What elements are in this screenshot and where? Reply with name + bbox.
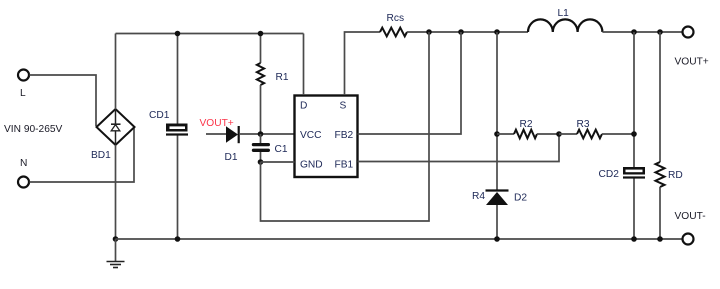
- terminal L: [18, 70, 29, 81]
- label CD2: [599, 169, 620, 180]
- svg-text:C1: C1: [275, 144, 288, 155]
- label BD1: [91, 150, 111, 161]
- wire N to BD1 right vertex: [30, 128, 135, 182]
- junction dot D2 bottom: [494, 236, 500, 242]
- svg-text:VCC: VCC: [300, 130, 322, 141]
- resistor R3: [559, 130, 634, 139]
- label Rcs: [387, 13, 405, 24]
- svg-text:FB1: FB1: [335, 160, 354, 171]
- junction dot CD2 bottom: [631, 236, 637, 242]
- junction dot CD1 top: [175, 31, 181, 37]
- label D2: [514, 193, 527, 204]
- terminal VOUT-: [683, 234, 694, 245]
- wire FB2 to rail: [358, 32, 462, 134]
- op-amp U1 IC box: [295, 96, 358, 178]
- junction dot R3 right: [631, 131, 637, 137]
- label L1: [558, 8, 570, 19]
- capacitor C1: [252, 134, 270, 162]
- svg-text:VOUT+: VOUT+: [675, 57, 709, 68]
- bridge rectifier BD1: [97, 109, 135, 145]
- resistor R2: [497, 130, 559, 139]
- label RD: [668, 170, 683, 181]
- label N: [20, 158, 27, 169]
- resistor RD: [656, 32, 665, 239]
- pin GND: [300, 160, 323, 171]
- wire bottom rail: [116, 238, 683, 240]
- junction dot RD bottom: [657, 236, 663, 242]
- junction dot VCC node: [258, 131, 264, 137]
- capacitor CD1: [166, 124, 188, 136]
- svg-text:CD1: CD1: [149, 110, 170, 121]
- label VOUT-: [675, 211, 706, 222]
- resistor Rcs: [380, 28, 407, 37]
- pin D: [300, 101, 307, 112]
- terminal N: [18, 177, 29, 188]
- svg-text:D1: D1: [225, 152, 238, 163]
- wire BD1 top vertex to top-left rail: [115, 34, 117, 110]
- svg-text:VOUT-: VOUT-: [675, 211, 706, 222]
- junction dot CD1 bottom: [175, 236, 181, 242]
- wire GND pin to C1: [261, 161, 295, 163]
- label CD1: [149, 110, 170, 121]
- inductor L1: [528, 19, 602, 32]
- svg-text:R3: R3: [577, 119, 590, 130]
- label C1: [275, 144, 288, 155]
- wire CD2 branch: [633, 32, 635, 239]
- wire L1 to VOUT+ terminal: [602, 31, 682, 33]
- svg-text:R4: R4: [472, 191, 485, 202]
- diode D2: [486, 191, 509, 240]
- label R2: [520, 119, 533, 130]
- label R4: [472, 191, 485, 202]
- junction dot RD rail: [657, 29, 663, 35]
- pin VCC: [300, 130, 322, 141]
- svg-text:L1: L1: [558, 8, 570, 19]
- label D1: [225, 152, 238, 163]
- ground: [107, 239, 125, 268]
- svg-text:D2: D2: [514, 193, 527, 204]
- label L: [20, 88, 26, 99]
- wire GND loop: [261, 32, 430, 221]
- wire L to BD1 left vertex: [30, 75, 97, 126]
- junction dot GND-loop rail: [426, 29, 432, 35]
- svg-text:R2: R2: [520, 119, 533, 130]
- svg-text:GND: GND: [300, 160, 323, 171]
- svg-text:D: D: [300, 101, 307, 112]
- label R1: [276, 72, 289, 83]
- wire S pin to rail: [345, 32, 381, 95]
- svg-text:VOUT+: VOUT+: [200, 118, 234, 129]
- label VOUT+ red: [200, 118, 234, 129]
- junction dot bottom-left: [113, 236, 119, 242]
- pin FB1: [335, 160, 354, 171]
- junction dot D2 rail: [494, 29, 500, 35]
- junction dot R2 R3: [556, 131, 562, 137]
- pin FB2: [335, 130, 354, 141]
- diode D1: [206, 126, 294, 143]
- label VIN 90-265V: [4, 124, 63, 135]
- junction dot R2 left: [494, 131, 500, 137]
- junction dot R1 top: [258, 31, 264, 37]
- wire BD1 bottom vertex down: [115, 145, 117, 239]
- svg-text:Rcs: Rcs: [387, 13, 405, 24]
- wire top-right rail to L1: [407, 31, 528, 33]
- svg-text:FB2: FB2: [335, 130, 354, 141]
- terminal VOUT+: [683, 27, 694, 38]
- svg-text:S: S: [340, 101, 347, 112]
- junction dot C1 bottom: [258, 159, 264, 165]
- svg-text:CD2: CD2: [599, 169, 620, 180]
- wire FB1 to R2 R3 junction: [358, 134, 560, 162]
- junction dot FB2 rail: [458, 29, 464, 35]
- svg-text:RD: RD: [668, 170, 683, 181]
- resistor R1: [257, 34, 264, 135]
- svg-text:N: N: [20, 158, 27, 169]
- svg-text:VIN 90-265V: VIN 90-265V: [4, 124, 63, 135]
- wire D pin to rail: [303, 34, 305, 96]
- label VOUT+: [675, 57, 709, 68]
- svg-text:R1: R1: [276, 72, 289, 83]
- junction dot CD2 rail: [631, 29, 637, 35]
- wire CD1 branch: [177, 34, 179, 240]
- capacitor CD2: [623, 167, 645, 179]
- wire top-left rail: [116, 33, 304, 35]
- wire VOUT node down to D2: [496, 32, 498, 190]
- svg-text:BD1: BD1: [91, 150, 111, 161]
- label R3: [577, 119, 590, 130]
- svg-text:L: L: [20, 88, 26, 99]
- pin S: [340, 101, 347, 112]
